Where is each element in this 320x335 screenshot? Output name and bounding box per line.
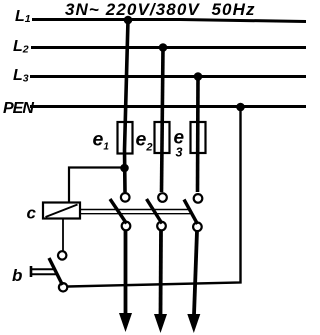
wire PEN drop to button b [68, 107, 241, 287]
switch contact S1 [110, 193, 130, 230]
wire phase1 vertical L1 to switch [125, 20, 129, 192]
bus L3 [30, 75, 306, 78]
svg-text:PEN: PEN [3, 100, 34, 117]
button b actuator [31, 266, 57, 277]
output arrow phase2 [154, 231, 167, 334]
wire junction to contactor coil [69, 168, 125, 204]
fuse e3 [191, 122, 206, 153]
node junction on PEN [236, 103, 245, 112]
mechanical linkage contactor [80, 210, 190, 214]
node junction below fuse e1 [120, 164, 129, 173]
svg-text:b: b [12, 266, 22, 285]
wire phase3 vertical L3 to switch [196, 77, 200, 193]
fuse e2 [155, 122, 170, 153]
node junction on L2 [159, 43, 168, 52]
svg-text:3: 3 [176, 146, 183, 160]
wire coil to button b [62, 219, 64, 252]
wire phase2 vertical L2 to switch [162, 48, 164, 193]
contactor coil c [43, 203, 80, 219]
node junction on L1 [124, 16, 133, 25]
fuse e1 [118, 122, 133, 154]
node junction on L3 [194, 72, 203, 81]
svg-text:c: c [27, 204, 37, 223]
bus L2 [31, 46, 306, 49]
button b contact [49, 251, 67, 291]
switch contact S3 [184, 194, 202, 231]
svg-text:3N~ 220V/380V 50Hz: 3N~ 220V/380V 50Hz [65, 0, 256, 19]
output arrow phase3 [187, 231, 200, 333]
bus PEN [30, 105, 306, 108]
bus L1 [32, 20, 306, 22]
output arrow phase1 [119, 231, 132, 333]
switch contact S2 [147, 193, 167, 230]
